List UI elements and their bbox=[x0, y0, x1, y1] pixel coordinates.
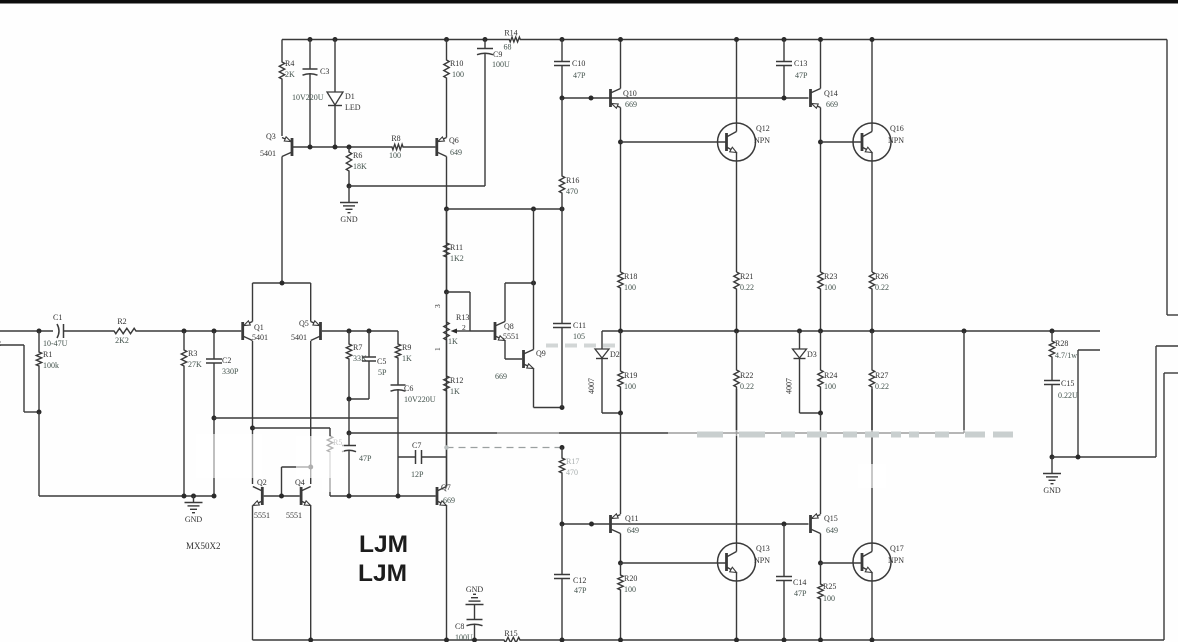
node C13 bottom bbox=[782, 96, 787, 101]
node Q12 at V+ rail bbox=[734, 37, 739, 42]
svg-text:Q11: Q11 bbox=[625, 514, 638, 523]
svg-text:5P: 5P bbox=[378, 368, 387, 377]
transistor Q2 bbox=[261, 487, 264, 505]
svg-text:100: 100 bbox=[823, 594, 835, 603]
wire Q12 collector to rail bbox=[736, 40, 738, 124]
wire R5 tap horizontal bbox=[253, 427, 331, 429]
svg-text:47P: 47P bbox=[359, 454, 372, 463]
capacitor C3 bbox=[309, 40, 311, 70]
svg-text:100U: 100U bbox=[492, 60, 510, 69]
node C14 at V- rail bbox=[782, 638, 787, 642]
resistor R24 bbox=[818, 331, 823, 413]
wire R13 wiper arrow bbox=[455, 330, 470, 332]
wire C6 bottom drop bbox=[397, 418, 399, 457]
svg-text:Q3: Q3 bbox=[266, 132, 276, 141]
node C14 at base line bbox=[782, 522, 787, 527]
svg-text:47P: 47P bbox=[795, 71, 808, 80]
transistor Q10 bbox=[609, 89, 612, 107]
node C10 bottom bbox=[560, 96, 565, 101]
capacitor C10 bbox=[561, 40, 563, 62]
resistor R11 bbox=[444, 209, 449, 292]
wire Q9 collector up bbox=[533, 283, 535, 350]
svg-text:R16: R16 bbox=[566, 176, 579, 185]
wire R19 node down to Q11 emitter bbox=[620, 413, 622, 514]
svg-text:MX50X2: MX50X2 bbox=[186, 541, 221, 551]
wire R24 node down to Q15 emitter bbox=[820, 413, 822, 514]
node C9 at V+ rail bbox=[483, 37, 488, 42]
svg-text:27K: 27K bbox=[188, 360, 202, 369]
svg-text:Q8: Q8 bbox=[504, 322, 514, 331]
node C10 at V+ rail bbox=[560, 37, 565, 42]
svg-text:R14: R14 bbox=[504, 29, 517, 38]
svg-text:0.22: 0.22 bbox=[875, 382, 889, 391]
svg-text:R19: R19 bbox=[624, 371, 637, 380]
svg-text:R7: R7 bbox=[353, 343, 362, 352]
svg-text:1K: 1K bbox=[450, 387, 460, 396]
node C15 bottom bbox=[1050, 455, 1055, 460]
watermark wash rail gap bbox=[497, 429, 559, 437]
capacitor C7 bbox=[415, 450, 417, 464]
svg-text:Q13: Q13 bbox=[756, 544, 770, 553]
wire output drop x964 bbox=[963, 331, 965, 433]
wire V+ top rail right segment bbox=[521, 39, 1168, 41]
wire V+ stub to right edge bbox=[1167, 314, 1178, 316]
svg-text:R18: R18 bbox=[624, 272, 637, 281]
node stub2 drop at link bbox=[1076, 455, 1081, 460]
svg-text:C3: C3 bbox=[320, 67, 329, 76]
svg-text:330P: 330P bbox=[222, 367, 239, 376]
svg-text:R22: R22 bbox=[740, 371, 753, 380]
wire output stub 2 bbox=[1078, 349, 1100, 351]
node R23 at output rail bbox=[818, 329, 823, 334]
wire V- edge drop bbox=[1163, 373, 1165, 640]
wire driver base line y524 bbox=[562, 523, 809, 525]
svg-text:12P: 12P bbox=[411, 470, 424, 479]
svg-text:C5: C5 bbox=[377, 357, 386, 366]
svg-text:5401: 5401 bbox=[291, 333, 307, 342]
wire Q7 collector up bbox=[446, 485, 448, 487]
transistor Q5 bbox=[319, 322, 322, 340]
svg-text:R15: R15 bbox=[504, 629, 517, 638]
wire V- edge stub bbox=[1164, 372, 1178, 374]
node mystery y98 bbox=[589, 96, 594, 101]
node output drop at x964 bbox=[962, 329, 967, 334]
wire Q1 emitter up bbox=[252, 283, 254, 322]
node R21 at output rail bbox=[734, 329, 739, 334]
wire V+ top rail left segment bbox=[282, 39, 509, 41]
svg-text:GND: GND bbox=[185, 515, 203, 524]
resistor R21 bbox=[734, 272, 739, 331]
svg-text:R8: R8 bbox=[391, 134, 400, 143]
svg-text:R23: R23 bbox=[824, 272, 837, 281]
node Q13 at V- rail bbox=[734, 638, 739, 642]
wire Q8 emitter to Q9 base bbox=[505, 358, 522, 360]
node R25 at V- rail bbox=[818, 638, 823, 642]
wire Q14 collector to rail bbox=[820, 40, 822, 89]
node mystery y524 bbox=[589, 522, 594, 527]
node C7 drop at ground rail bbox=[396, 494, 401, 499]
svg-text:100: 100 bbox=[824, 283, 836, 292]
resistor R10 bbox=[444, 40, 449, 138]
svg-text:1: 1 bbox=[433, 347, 442, 351]
svg-text:LJM: LJM bbox=[359, 531, 408, 558]
svg-text:2K: 2K bbox=[285, 70, 295, 79]
svg-text:D2: D2 bbox=[610, 350, 620, 359]
wire Q13 base line bbox=[621, 562, 727, 564]
wire ground rail right segment bbox=[330, 495, 436, 497]
capacitor C9 bbox=[484, 40, 486, 49]
svg-text:Q16: Q16 bbox=[890, 124, 904, 133]
node GND stub junction bbox=[191, 494, 196, 499]
wire Q8 base from wiper bbox=[470, 330, 494, 332]
svg-text:1K: 1K bbox=[402, 354, 412, 363]
svg-text:100U: 100U bbox=[455, 633, 473, 642]
svg-text:0.22: 0.22 bbox=[740, 382, 754, 391]
capacitor C6 bbox=[397, 384, 399, 385]
svg-text:Q12: Q12 bbox=[756, 124, 770, 133]
wire feedback line y418 bbox=[214, 417, 398, 419]
svg-text:669: 669 bbox=[625, 100, 637, 109]
svg-text:Q9: Q9 bbox=[536, 349, 546, 358]
node R28 at output rail bbox=[1050, 329, 1055, 334]
wire Q2 emitter down bbox=[252, 506, 254, 641]
svg-text:5551: 5551 bbox=[503, 332, 519, 341]
wire wiper feed horizontal bbox=[447, 291, 471, 293]
svg-text:2: 2 bbox=[0, 339, 1, 348]
resistor R17 bbox=[559, 448, 564, 525]
wire R27 bottom to Q17 bbox=[871, 389, 873, 433]
svg-text:Q6: Q6 bbox=[449, 136, 459, 145]
node R7/C5 bottom bbox=[347, 397, 352, 402]
wire mirror jog drop bbox=[281, 467, 283, 496]
node R3 top bbox=[182, 329, 187, 334]
wire Q8 collector up bbox=[504, 283, 506, 322]
resistor R12 bbox=[444, 348, 449, 485]
node Q15 collector / Q17 base bbox=[818, 561, 823, 566]
node D3 at output rail bbox=[797, 329, 802, 334]
svg-text:Q7: Q7 bbox=[441, 483, 451, 492]
node Q1 collector R5 tap bbox=[250, 426, 255, 431]
svg-text:LJM: LJM bbox=[358, 560, 407, 587]
wire wiper feed drop bbox=[469, 292, 471, 331]
node C3 at V+ rail bbox=[308, 37, 313, 42]
capacitor C8 bbox=[474, 619, 476, 621]
svg-text:105: 105 bbox=[573, 332, 585, 341]
node Q16 base branch bbox=[818, 140, 823, 145]
wire C7 node down to base line bbox=[397, 457, 399, 496]
svg-text:D3: D3 bbox=[807, 350, 817, 359]
node input junction bbox=[37, 329, 42, 334]
potentiometer R13 bbox=[444, 292, 449, 348]
node Q11 collector / Q13 base bbox=[618, 561, 623, 566]
svg-text:47P: 47P bbox=[794, 589, 807, 598]
node C13 at V+ rail bbox=[782, 37, 787, 42]
wire D2 to R19 bottom bbox=[602, 412, 621, 414]
wire Q4 emitter down bbox=[310, 506, 312, 641]
capacitor C15 bbox=[1051, 378, 1053, 381]
wire GND stub bbox=[193, 496, 195, 502]
wire Q6 base from R8 bbox=[404, 146, 436, 148]
wire ground rail left segment bbox=[39, 495, 213, 497]
wire Q3 base line bbox=[292, 146, 392, 148]
wire Q17 base line bbox=[821, 562, 863, 564]
wire V+ rail right edge drop bbox=[1166, 40, 1168, 316]
svg-text:GND: GND bbox=[340, 215, 358, 224]
node R11 bottom / wiper feed bbox=[444, 290, 449, 295]
svg-text:Q15: Q15 bbox=[824, 514, 838, 523]
wire Q2/Q4 base join bbox=[264, 495, 300, 497]
wire Q7 emitter down bbox=[446, 506, 448, 641]
svg-text:100: 100 bbox=[452, 70, 464, 79]
svg-text:C15: C15 bbox=[1061, 379, 1074, 388]
resistor R5 bbox=[327, 428, 332, 496]
svg-text:100k: 100k bbox=[43, 361, 59, 370]
wire Q14 emitter down bbox=[820, 108, 822, 273]
resistor R1 bbox=[36, 331, 41, 412]
ground GND right bbox=[1043, 473, 1061, 475]
node R6 bottom bbox=[347, 184, 352, 189]
wire Q16 collector to rail bbox=[871, 40, 873, 124]
node miller link ghost bbox=[444, 445, 449, 450]
node Q16 at V+ rail bbox=[870, 37, 875, 42]
wire Q9 emitter down bbox=[533, 369, 535, 408]
svg-text:669: 669 bbox=[826, 100, 838, 109]
svg-text:R9: R9 bbox=[402, 343, 411, 352]
wire Q17 emitter down bbox=[871, 581, 873, 640]
transistor Q17 NPN bbox=[853, 543, 891, 581]
capacitor C14 bbox=[783, 524, 785, 577]
resistor R14 bbox=[509, 37, 521, 42]
wire C8 top stem bbox=[474, 605, 476, 620]
node R16 bottom bbox=[560, 207, 565, 212]
node link at x533 bbox=[531, 207, 536, 212]
wire Q11 collector down bbox=[620, 534, 622, 564]
node R20 at V- rail bbox=[618, 638, 623, 642]
wire C7 right tap bbox=[422, 456, 447, 458]
svg-text:GND: GND bbox=[1043, 486, 1061, 495]
svg-text:0.22: 0.22 bbox=[740, 283, 754, 292]
node C2 feedback tap bbox=[212, 416, 217, 421]
node Q6 collector / R16 link bbox=[444, 207, 449, 212]
svg-text:R6: R6 bbox=[353, 151, 362, 160]
svg-text:R4: R4 bbox=[285, 59, 294, 68]
svg-text:C13: C13 bbox=[794, 59, 807, 68]
resistor R15 bbox=[503, 637, 521, 642]
transistor Q7 bbox=[436, 487, 439, 505]
svg-text:47P: 47P bbox=[573, 71, 586, 80]
svg-text:18K: 18K bbox=[353, 162, 367, 171]
svg-text:470: 470 bbox=[566, 187, 578, 196]
wire R6 node to C9 bbox=[349, 185, 485, 187]
wire C7 left tap bbox=[398, 456, 416, 458]
ground GND under R6 bbox=[340, 202, 358, 204]
svg-text:R27: R27 bbox=[875, 371, 888, 380]
svg-text:C10: C10 bbox=[572, 59, 585, 68]
svg-text:R11: R11 bbox=[450, 243, 463, 252]
resistor R8 bbox=[392, 144, 404, 149]
svg-text:47P: 47P bbox=[574, 586, 587, 595]
wire R1 bottom to ground rail bbox=[38, 412, 40, 496]
svg-text:100: 100 bbox=[824, 382, 836, 391]
wire C15 to GND bbox=[1051, 457, 1053, 473]
resistor R16 bbox=[559, 98, 564, 209]
wire D2 bottom bbox=[601, 359, 603, 414]
svg-text:R10: R10 bbox=[450, 59, 463, 68]
transistor Q16 NPN bbox=[853, 123, 891, 161]
node mirror base join bbox=[279, 494, 284, 499]
node R17 at base line bbox=[560, 522, 565, 527]
node Q12 base branch bbox=[618, 140, 623, 145]
transistor Q9 bbox=[522, 350, 525, 368]
wire R2 to Q1 base bbox=[137, 330, 241, 332]
svg-text:0.22: 0.22 bbox=[875, 283, 889, 292]
resistor R27 bbox=[869, 331, 874, 433]
node R18 at output rail bbox=[618, 329, 623, 334]
wire Q16 emitter down bbox=[871, 161, 873, 272]
svg-text:Q5: Q5 bbox=[299, 319, 309, 328]
svg-text:Q4: Q4 bbox=[295, 478, 305, 487]
svg-text:Q10: Q10 bbox=[623, 89, 637, 98]
capacitor C13 bbox=[783, 40, 785, 62]
wire R22 bottom to Q13 bbox=[736, 389, 738, 433]
node C3 at base line bbox=[308, 145, 313, 150]
watermark wash left bbox=[196, 434, 262, 478]
svg-text:4.7/1w: 4.7/1w bbox=[1055, 351, 1077, 360]
resistor R4 bbox=[279, 40, 284, 137]
capacitor C1 bbox=[57, 324, 59, 338]
wire R7 node down to C4 node bbox=[348, 399, 350, 433]
resistor R18 bbox=[618, 272, 623, 331]
node Q9 emitter at C11 bbox=[560, 405, 565, 410]
svg-text:R20: R20 bbox=[624, 574, 637, 583]
svg-text:649: 649 bbox=[627, 526, 639, 535]
svg-text:2K2: 2K2 bbox=[115, 336, 129, 345]
svg-text:R2: R2 bbox=[117, 317, 126, 326]
wire tail join bbox=[253, 282, 311, 284]
transistor Q1 bbox=[241, 322, 244, 340]
resistor R20 bbox=[618, 563, 623, 640]
node Q7 at V- rail bbox=[444, 638, 449, 642]
watermark gray text row right bbox=[697, 432, 723, 438]
wire Q12 base line bbox=[621, 141, 727, 143]
svg-text:R1: R1 bbox=[43, 350, 52, 359]
wire Q12 emitter down bbox=[736, 161, 738, 272]
svg-text:470: 470 bbox=[566, 468, 578, 477]
diode D2 bbox=[601, 331, 603, 349]
node mirror jog bbox=[308, 465, 313, 470]
svg-text:C12: C12 bbox=[573, 576, 586, 585]
transistor Q3 bbox=[291, 138, 294, 156]
node C2 at ground rail bbox=[212, 494, 217, 499]
svg-text:5551: 5551 bbox=[254, 511, 270, 520]
wire mirror jog horizontal bbox=[282, 466, 311, 468]
wire output rail y331 bbox=[602, 330, 1100, 332]
resistor R22 bbox=[734, 331, 739, 433]
node Q10 at V+ rail bbox=[618, 37, 623, 42]
node R1 bottom junction bbox=[37, 410, 42, 415]
wire Q8 emitter drop bbox=[504, 341, 506, 360]
wire Q16 base line bbox=[821, 141, 863, 143]
diode D1 LED bbox=[327, 92, 343, 105]
resistor R19 bbox=[618, 331, 623, 413]
node R3 at ground rail bbox=[182, 494, 187, 499]
wire Q10 emitter down bbox=[620, 108, 622, 273]
svg-text:5551: 5551 bbox=[286, 511, 302, 520]
diode D3 bbox=[799, 331, 801, 349]
svg-text:10V220U: 10V220U bbox=[404, 395, 436, 404]
wire Q8 collector join bbox=[505, 282, 534, 284]
svg-text:R25: R25 bbox=[823, 582, 836, 591]
wire V- bottom rail right segment bbox=[521, 639, 1164, 641]
watermark wash right column bbox=[858, 464, 886, 488]
svg-text:100: 100 bbox=[624, 283, 636, 292]
node C2 top bbox=[212, 329, 217, 334]
wire Q9 emitter join bbox=[534, 407, 563, 409]
resistor R2 bbox=[113, 328, 137, 333]
transistor Q11 bbox=[609, 515, 612, 533]
node Q17 at V- rail bbox=[870, 638, 875, 642]
wire D1 bottom bbox=[334, 106, 336, 148]
transistor Q6 bbox=[435, 138, 438, 156]
node Q14 at V+ rail bbox=[818, 37, 823, 42]
svg-text:R12: R12 bbox=[450, 376, 463, 385]
resistor R7 bbox=[346, 331, 351, 399]
node R6 top bbox=[347, 145, 352, 150]
wire D3 bottom bbox=[799, 359, 801, 414]
resistor R3 bbox=[181, 331, 186, 496]
svg-text:NPN: NPN bbox=[888, 556, 904, 565]
capacitor C11 bbox=[561, 209, 563, 324]
svg-text:4007: 4007 bbox=[785, 378, 794, 394]
node miller link at x562 bbox=[560, 445, 565, 450]
svg-text:GND: GND bbox=[466, 585, 484, 594]
wire R7/C5 bottom join bbox=[349, 398, 369, 400]
wire x533 link down bbox=[533, 209, 535, 283]
node tail center bbox=[280, 281, 285, 286]
svg-text:Q14: Q14 bbox=[824, 89, 838, 98]
svg-text:1K2: 1K2 bbox=[450, 254, 464, 263]
node C8 at V- rail bbox=[472, 638, 477, 642]
svg-text:0.22U: 0.22U bbox=[1058, 391, 1078, 400]
node R7 top bbox=[347, 329, 352, 334]
node D1 at base line bbox=[333, 145, 338, 150]
svg-text:R26: R26 bbox=[875, 272, 888, 281]
svg-text:649: 649 bbox=[450, 148, 462, 157]
svg-text:Q17: Q17 bbox=[890, 544, 904, 553]
svg-text:669: 669 bbox=[443, 496, 455, 505]
wire input 2 to R1 bottom bbox=[24, 411, 39, 413]
node C4 top / zobel rail start bbox=[347, 431, 352, 436]
svg-text:R28: R28 bbox=[1055, 339, 1068, 348]
wire D1 top bbox=[334, 40, 336, 93]
svg-text:5401: 5401 bbox=[252, 333, 268, 342]
wire R6 bottom to GND stem bbox=[348, 186, 350, 202]
capacitor C5 bbox=[368, 331, 370, 357]
node C4 at ground rail bbox=[347, 494, 352, 499]
wire speaker return up bbox=[1155, 346, 1157, 457]
svg-text:10V220U: 10V220U bbox=[292, 93, 324, 102]
node C12 at V- rail bbox=[560, 638, 565, 642]
transistor Q15 bbox=[809, 515, 812, 533]
transistor Q12 NPN bbox=[718, 123, 756, 161]
svg-text:C9: C9 bbox=[493, 50, 502, 59]
wire miller dashed link bbox=[447, 447, 563, 449]
node C5 top bbox=[367, 329, 372, 334]
svg-text:100: 100 bbox=[389, 151, 401, 160]
wire input 2 horizontal bbox=[0, 344, 24, 346]
svg-text:C11: C11 bbox=[573, 321, 586, 330]
watermark wash mirror bbox=[296, 436, 344, 478]
